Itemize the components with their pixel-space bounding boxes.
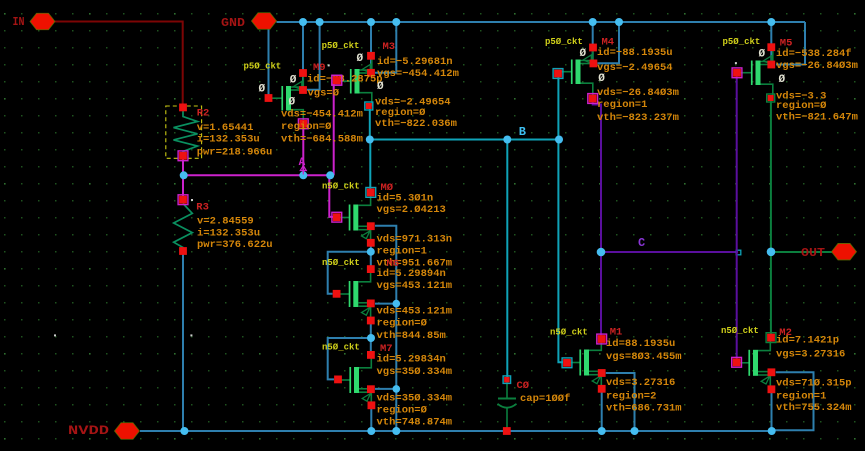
svg-text:vth=−822.036m: vth=−822.036m [375, 118, 457, 130]
svg-text:id=88.1935u: id=88.1935u [606, 338, 675, 350]
svg-text:Ø: Ø [259, 84, 266, 96]
transistor M7 symbol [338, 355, 372, 405]
svg-text:vds=453.121m: vds=453.121m [377, 306, 453, 318]
origin markers [328, 64, 330, 66]
wire M3 source drop [370, 22, 372, 73]
svg-text:id=5.29834n: id=5.29834n [377, 354, 446, 366]
svg-text:id=−28.2875p: id=−28.2875p [307, 74, 383, 86]
pin M4 source [589, 44, 597, 52]
svg-text:v=1.65441: v=1.65441 [197, 122, 254, 134]
svg-text:vth=844.85m: vth=844.85m [377, 330, 446, 342]
pin M2 gate [732, 357, 742, 367]
junction dots bulk rail [393, 300, 401, 308]
svg-text:Ø: Ø [289, 97, 296, 109]
svg-text:vth=−823.237m: vth=−823.237m [597, 112, 679, 124]
pin M2 source [768, 385, 776, 393]
wire node B horizontal [370, 139, 559, 141]
wire M9 bulk loop [307, 22, 320, 90]
wire M3 bulk loop [375, 22, 396, 73]
pin M0 source [367, 239, 375, 247]
wire M0 source to M6 drain [370, 245, 372, 268]
wire node B to C0 [506, 140, 508, 378]
resistor R3 symbol [174, 204, 193, 251]
junction dots mid stack [367, 248, 375, 256]
svg-text:Ø: Ø [598, 73, 605, 85]
wire M5 source drop [770, 22, 772, 65]
wire node A to M0 gate [329, 175, 333, 217]
svg-text:Ø: Ø [759, 49, 766, 61]
transistor M3 symbol [337, 56, 372, 106]
wire M5 gate to node C to M2 gate [736, 76, 738, 362]
io pin IN [30, 13, 55, 30]
svg-text:i=132.353u: i=132.353u [197, 228, 260, 240]
svg-text:p5Ø_ckt: p5Ø_ckt [545, 37, 583, 47]
pin M0 bulk [367, 222, 375, 230]
svg-text:v=2.84559: v=2.84559 [197, 216, 254, 228]
svg-text:n5Ø_ckt: n5Ø_ckt [322, 181, 360, 191]
pin M4 bulk [590, 60, 598, 68]
io pin GND [252, 13, 277, 30]
pin M6 drain [367, 265, 375, 273]
svg-text:C: C [638, 236, 645, 250]
svg-text:region=1: region=1 [776, 391, 826, 403]
pin M4 drain [588, 94, 598, 104]
svg-text:vgs=−26.84Ø3m: vgs=−26.84Ø3m [776, 60, 858, 72]
wire node A horizontal [184, 174, 334, 176]
capacitor C0 symbol [498, 382, 517, 428]
transistor M2 symbol [737, 338, 771, 388]
svg-text:region=Ø: region=Ø [776, 100, 827, 112]
pin M3 gate [332, 75, 342, 85]
pin M1 source [598, 385, 606, 393]
pin M1 bulk [598, 369, 606, 377]
svg-text:vth=748.874m: vth=748.874m [377, 417, 453, 429]
svg-text:vgs=3.27316: vgs=3.27316 [776, 349, 845, 361]
svg-text:Ø: Ø [290, 74, 297, 86]
wire M6 bulk tap [375, 303, 396, 305]
wire M7 source to NVDD [370, 408, 372, 431]
pin R2 bottom [178, 151, 188, 161]
wire M7 gate diode loop [328, 338, 371, 379]
pin M6 gate [333, 290, 341, 298]
pin R2 top [179, 104, 187, 112]
wire GND drop to M9 gate [268, 29, 270, 96]
svg-text:region=2: region=2 [606, 391, 656, 403]
svg-text:id=5.29894n: id=5.29894n [377, 268, 446, 280]
svg-text:id=7.1421p: id=7.1421p [776, 335, 839, 347]
pin M3 gate overlay [332, 75, 342, 85]
wire M4 source drop [592, 22, 594, 65]
junction dot OUT [767, 248, 776, 257]
wire M6 source to M7 drain [370, 324, 372, 355]
svg-text:id=−538.284f: id=−538.284f [776, 48, 852, 60]
svg-text:id=5.3Ø1n: id=5.3Ø1n [377, 193, 434, 205]
pin M6 bulk [367, 300, 375, 308]
svg-text:region=Ø: region=Ø [377, 405, 428, 417]
transistor M1 symbol [568, 338, 602, 388]
svg-text:p5Ø_ckt: p5Ø_ckt [322, 41, 360, 51]
transistor M9 symbol [269, 73, 304, 123]
pin M7 drain [367, 351, 375, 359]
node C wire end marker [736, 250, 741, 255]
svg-text:region=1: region=1 [597, 99, 647, 111]
svg-text:Ø: Ø [377, 81, 384, 93]
svg-text:vds=−26.84Ø3m: vds=−26.84Ø3m [597, 87, 679, 99]
pin M1 gate [562, 358, 572, 368]
transistor M6 symbol [337, 269, 371, 319]
junction dots node B [366, 136, 374, 144]
pin M9 drain [298, 119, 308, 129]
transistor M4 symbol [558, 47, 593, 97]
wire node B to M4 gate and M1 gate [557, 77, 559, 140]
svg-text:R3: R3 [196, 202, 209, 214]
svg-text:vgs=2.Ø4213: vgs=2.Ø4213 [377, 204, 446, 216]
wire M9 drain to node A [302, 127, 304, 175]
pin M7 source [368, 401, 376, 409]
svg-text:n5Ø_ckt: n5Ø_ckt [721, 326, 759, 336]
svg-text:vth=−684.588m: vth=−684.588m [281, 134, 363, 146]
pin M1 drain [597, 334, 607, 344]
svg-text:M9: M9 [313, 62, 326, 74]
wire OUT horizontal [771, 251, 832, 253]
svg-text:n5Ø_ckt: n5Ø_ckt [322, 342, 360, 352]
pin M7 gate [334, 376, 342, 384]
svg-text:region=Ø: region=Ø [281, 121, 332, 133]
wire M7 bulk tap [375, 388, 396, 390]
svg-text:n5Ø_ckt: n5Ø_ckt [550, 327, 588, 337]
resistor R2 selection box [166, 106, 202, 158]
wire M3 drain to M0 drain node B [369, 106, 371, 140]
wire R3 to NVDD rail [182, 251, 184, 431]
junction dots NVDD rail [180, 427, 188, 435]
svg-text:OUT: OUT [801, 246, 825, 260]
pin R3 bottom [179, 247, 187, 255]
svg-text:p5Ø_ckt: p5Ø_ckt [723, 37, 761, 47]
svg-text:vgs=453.121m: vgs=453.121m [377, 280, 453, 292]
svg-text:n5Ø_ckt: n5Ø_ckt [322, 258, 360, 268]
pin M5 source [767, 43, 775, 51]
svg-text:vgs=−454.412m: vgs=−454.412m [377, 68, 459, 80]
junction dots node A [180, 171, 188, 179]
svg-text:vgs=−2.49654: vgs=−2.49654 [597, 62, 673, 74]
wire M4 bulk loop [598, 22, 620, 63]
svg-text:cap=1ØØf: cap=1ØØf [520, 393, 570, 405]
wire NVDD bottom rail [140, 430, 772, 432]
svg-text:B: B [519, 125, 526, 139]
svg-text:pwr=376.622u: pwr=376.622u [197, 239, 273, 251]
wire M4 drain to node C to M1 drain [593, 101, 601, 336]
svg-text:M3: M3 [383, 41, 396, 53]
wire M9 source drop [302, 22, 304, 90]
svg-text:Ø: Ø [357, 53, 364, 65]
pin R3 top [178, 195, 188, 205]
pin C0 top [503, 376, 511, 384]
pin C0 bottom [503, 427, 511, 435]
svg-text:id=−88.1935u: id=−88.1935u [597, 47, 673, 59]
wire GND top rail [277, 21, 806, 23]
svg-text:pwr=218.966u: pwr=218.966u [197, 147, 273, 159]
pin M3 source [367, 52, 375, 60]
svg-text:vth=−821.647m: vth=−821.647m [776, 112, 858, 124]
svg-text:i=132.353u: i=132.353u [197, 134, 260, 146]
io pin OUT [832, 243, 857, 260]
svg-text:p5Ø_ckt: p5Ø_ckt [244, 62, 282, 72]
pin M0 drain [366, 188, 376, 198]
pin M9 source [299, 69, 307, 77]
wire M6 gate diode loop [328, 252, 371, 294]
wire M2 source to NVDD [771, 393, 773, 431]
svg-text:vgs=Ø: vgs=Ø [308, 88, 340, 100]
pin M7 bulk [367, 385, 375, 393]
transistor M5 symbol [738, 48, 773, 98]
pin M9 gate [265, 94, 273, 102]
pin M6 source [367, 317, 375, 325]
pin M3 drain [365, 102, 373, 110]
pin M0 gate [332, 212, 342, 222]
svg-text:NVDD: NVDD [68, 424, 110, 438]
pin M2 bulk [768, 368, 776, 376]
pin M5 drain [767, 94, 775, 102]
pin M3 bulk [367, 69, 375, 77]
wire M3 gate to node A [333, 84, 335, 176]
svg-text:M1: M1 [610, 327, 623, 339]
svg-text:IN: IN [13, 16, 25, 29]
svg-text:vds=35Ø.334m: vds=35Ø.334m [377, 393, 453, 405]
pin M4 gate [553, 69, 563, 79]
svg-text:vth=686.731m: vth=686.731m [606, 403, 682, 415]
svg-text:id=−5.29681n: id=−5.29681n [377, 56, 453, 68]
svg-text:vds=3.27316: vds=3.27316 [606, 377, 675, 389]
wire M2 bulk loop [773, 372, 814, 430]
svg-text:vth=755.324m: vth=755.324m [776, 402, 852, 414]
resistor R2 symbol [174, 111, 198, 155]
pin M5 bulk [767, 61, 775, 69]
svg-text:GND: GND [221, 16, 245, 30]
junction dots GND rail [299, 18, 307, 26]
svg-text:Ø: Ø [580, 48, 587, 60]
wire M1 bulk loop [606, 373, 635, 431]
wire R2 to R3 magenta [182, 156, 184, 200]
wire node C horizontal [601, 251, 738, 253]
wire M5 drain to OUT to M2 drain [770, 100, 772, 335]
svg-text:R2: R2 [197, 108, 210, 120]
wire M1 source to NVDD [601, 392, 603, 431]
svg-text:vgs=35Ø.334m: vgs=35Ø.334m [377, 366, 453, 378]
svg-text:Ø: Ø [779, 74, 786, 86]
svg-text:vds=971.313n: vds=971.313n [377, 234, 453, 246]
pin M2 drain [766, 333, 776, 343]
transistor M0 symbol [337, 193, 371, 243]
io pin NVDD [115, 423, 140, 440]
wire n50 bulk rail [375, 226, 396, 431]
svg-text:region=1: region=1 [377, 246, 427, 258]
wire GND rail wrap to M5 bulk [776, 22, 805, 65]
svg-text:vds=−454.412m: vds=−454.412m [281, 109, 363, 121]
pin M9 bulk [299, 86, 307, 94]
svg-text:vgs=8Ø3.455m: vgs=8Ø3.455m [606, 351, 682, 363]
svg-text:CØ: CØ [517, 380, 530, 392]
svg-text:region=Ø: region=Ø [377, 318, 428, 330]
wire IN net red [55, 22, 183, 105]
pin M5 gate [732, 68, 742, 78]
svg-text:vds=71Ø.315p: vds=71Ø.315p [776, 378, 852, 390]
junction dot node C [597, 248, 606, 257]
